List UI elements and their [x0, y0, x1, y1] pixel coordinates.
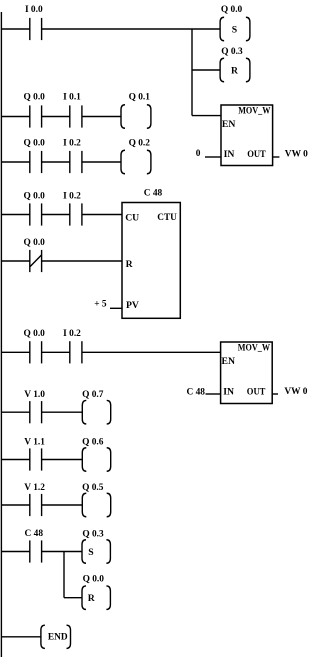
- wire rung2 mid: [42, 116, 70, 118]
- wire rung5: rail to NC contact: [1, 260, 29, 262]
- coil END: [41, 625, 71, 648]
- contact I0.1: [70, 105, 82, 127]
- box MOV_W U2: [221, 342, 273, 404]
- svg-text:Q 0.2: Q 0.2: [129, 138, 151, 148]
- svg-text:END: END: [48, 633, 68, 643]
- svg-text:I 0.2: I 0.2: [63, 329, 81, 339]
- svg-text:MOV_W: MOV_W: [238, 344, 271, 354]
- wire rung8: rail to contact: [1, 459, 29, 461]
- svg-text:Q 0.0: Q 0.0: [83, 575, 105, 585]
- svg-text:Q 0.3: Q 0.3: [82, 529, 104, 539]
- coil Q0.7: [82, 400, 110, 424]
- contact Q0.0 rung2: [30, 105, 42, 127]
- svg-text:Q 0.1: Q 0.1: [129, 93, 151, 103]
- svg-text:I 0.2: I 0.2: [63, 138, 81, 148]
- wire rung1: contact to S coil: [42, 28, 221, 30]
- contact I0.2 rung3: [70, 151, 82, 173]
- coil Q0.0 reset R: [82, 586, 110, 610]
- svg-text:EN: EN: [222, 356, 235, 367]
- contact Q0.0 rung4: [30, 203, 42, 225]
- svg-text:Q 0.0: Q 0.0: [24, 238, 46, 248]
- svg-text:IN: IN: [223, 386, 234, 397]
- wire rung6 mid: [42, 351, 70, 353]
- svg-text:R: R: [231, 65, 239, 76]
- svg-text:IN: IN: [224, 149, 235, 160]
- wire rung10 to S coil: [42, 551, 82, 553]
- wire rung6: rail to contact: [1, 351, 29, 353]
- svg-text:I 0.1: I 0.1: [63, 93, 81, 103]
- wire rung2 to coil: [82, 116, 121, 118]
- coil Q0.5: [82, 493, 110, 517]
- coil Q0.0 set S: [220, 17, 250, 41]
- wire rung10: rail to contact C48: [1, 551, 29, 553]
- wire U1 IN stub: [205, 156, 221, 158]
- svg-text:CTU: CTU: [157, 212, 177, 223]
- coil Q0.3 set S: [82, 540, 110, 564]
- contact C48: [30, 540, 42, 562]
- svg-text:EN: EN: [222, 119, 235, 130]
- counter C48 CTU box: [122, 203, 180, 319]
- wire rung3: rail to contact: [1, 161, 29, 163]
- wire rung11: rail to END coil: [1, 636, 41, 638]
- svg-text:+ 5: + 5: [94, 300, 107, 310]
- coil Q0.1: [121, 105, 151, 129]
- left power rail: [0, 12, 2, 657]
- wire U2 OUT stub: [272, 393, 278, 395]
- wire tap to U1 EN: [192, 115, 221, 117]
- svg-text:V 1.2: V 1.2: [24, 483, 45, 493]
- svg-text:OUT: OUT: [247, 149, 266, 160]
- svg-text:Q 0.0: Q 0.0: [24, 191, 46, 201]
- svg-text:CU: CU: [125, 213, 139, 224]
- wire rung3 to coil: [82, 161, 121, 163]
- wire tap to coil Q0.0 R: [64, 597, 82, 599]
- wire rung9 to coil: [42, 504, 83, 506]
- contact V1.2: [30, 494, 42, 516]
- svg-text:S: S: [232, 24, 237, 35]
- svg-text:Q 0.0: Q 0.0: [24, 93, 46, 103]
- svg-text:Q 0.3: Q 0.3: [221, 47, 243, 57]
- svg-text:Q 0.0: Q 0.0: [221, 5, 243, 15]
- coil Q0.6: [82, 448, 110, 472]
- svg-text:V 1.1: V 1.1: [24, 438, 45, 448]
- contact Q0.0 normally-closed: [30, 250, 42, 272]
- wire rung7: rail to contact: [1, 411, 29, 413]
- svg-text:OUT: OUT: [247, 386, 266, 397]
- wire rung2: rail to contact: [1, 116, 29, 118]
- contact V1.0: [30, 401, 42, 423]
- svg-text:R: R: [88, 593, 96, 604]
- svg-text:VW 0: VW 0: [284, 387, 307, 397]
- svg-text:I 0.0: I 0.0: [25, 5, 43, 15]
- svg-text:V 1.0: V 1.0: [24, 390, 45, 400]
- wire rung8 to coil: [42, 459, 83, 461]
- svg-text:I 0.2: I 0.2: [63, 191, 81, 201]
- contact Q0.0 rung3: [30, 151, 42, 173]
- box MOV_W U1: [221, 105, 273, 166]
- svg-text:C 48: C 48: [144, 188, 163, 198]
- svg-text:Q 0.6: Q 0.6: [82, 438, 104, 448]
- svg-text:Q 0.7: Q 0.7: [82, 390, 104, 400]
- wire rung5 to counter R: [42, 260, 122, 262]
- svg-text:C 48: C 48: [25, 529, 44, 539]
- svg-text:R: R: [126, 259, 134, 270]
- svg-text:0: 0: [196, 149, 201, 159]
- svg-text:C 48: C 48: [187, 387, 206, 397]
- wire U1 OUT stub: [273, 156, 280, 158]
- wire tap to coil Q0.3 R: [192, 69, 220, 71]
- coil Q0.2: [121, 150, 151, 174]
- wire rung6 to U2 EN: [82, 351, 221, 353]
- wire rung3 mid: [42, 161, 70, 163]
- svg-text:PV: PV: [126, 300, 139, 311]
- contact Q0.0 rung6: [30, 341, 42, 363]
- wire rung1: rail to contact I0.0: [1, 28, 29, 30]
- wire rung4: rail to contact: [1, 214, 29, 216]
- wire rung4 mid: [42, 214, 70, 216]
- svg-text:Q 0.5: Q 0.5: [82, 483, 104, 493]
- coil Q0.3 reset R: [220, 58, 250, 82]
- wire rung7 to coil: [42, 411, 83, 413]
- node branch1 vertical: [191, 29, 193, 116]
- node branch10 vertical: [63, 552, 65, 598]
- contact I0.2 rung4: [70, 203, 82, 225]
- wire rung4 to counter CU: [82, 214, 122, 216]
- svg-text:MOV_W: MOV_W: [238, 107, 271, 117]
- svg-text:Q 0.0: Q 0.0: [24, 138, 46, 148]
- wire PV stub: [110, 307, 122, 309]
- contact V1.1: [30, 448, 42, 470]
- wire U2 IN stub: [206, 393, 221, 395]
- svg-text:S: S: [88, 547, 93, 558]
- contact I0.2 rung6: [70, 341, 82, 363]
- svg-text:VW 0: VW 0: [285, 150, 308, 160]
- contact I0.0: [30, 18, 42, 40]
- svg-text:Q 0.0: Q 0.0: [24, 329, 46, 339]
- wire rung9: rail to contact: [1, 504, 29, 506]
